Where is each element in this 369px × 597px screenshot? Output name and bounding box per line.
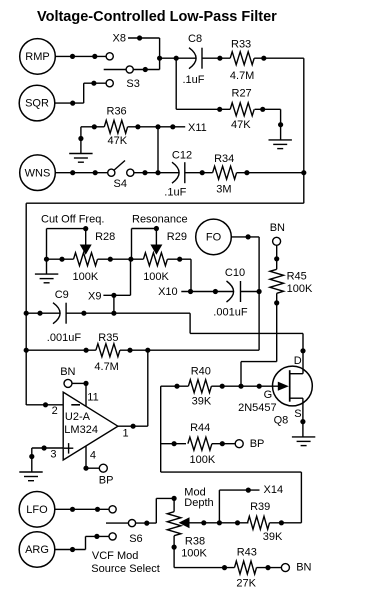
label LM324 [64, 424, 98, 436]
svg-text:Voltage-Controlled Low-Pass Fi: Voltage-Controlled Low-Pass Filter [37, 9, 277, 25]
wire pin 4 to BP [86, 467, 99, 469]
label BN (R45) [270, 222, 285, 234]
wire C12 to R34 [185, 172, 213, 174]
resistor R33 [230, 52, 254, 65]
wire R27 to ground [255, 108, 281, 110]
svg-text:47K: 47K [108, 135, 128, 147]
wire pin 2 input [26, 404, 63, 406]
wire X9 drop [113, 295, 115, 313]
wire ARG output [55, 549, 86, 551]
wire R28 to R29 [98, 258, 144, 260]
potentiometer R38 [167, 512, 181, 536]
ground (R28) [35, 274, 58, 283]
wire gate riser [240, 362, 242, 387]
transistor Q8 gate bar [289, 370, 291, 402]
wire jog down [189, 313, 191, 333]
terminal SQR [19, 85, 55, 121]
junction right of R44 [220, 441, 225, 446]
svg-text:.1uF: .1uF [183, 74, 205, 86]
svg-text:RMP: RMP [25, 51, 49, 63]
label Cut Off Freq. [41, 214, 104, 226]
svg-text:R45: R45 [287, 271, 307, 283]
junction on X11 stub [170, 124, 175, 129]
junction right of R43 [265, 565, 270, 570]
wire left bus vertical [25, 203, 27, 405]
value 100K (R44) [190, 454, 216, 466]
resistor R45 [270, 269, 284, 293]
pin label G [264, 389, 273, 401]
label Depth [184, 497, 213, 509]
wire R35 right [120, 349, 259, 351]
terminal BP (U2-A) [99, 464, 107, 472]
junction R36/S4 riser [155, 124, 160, 129]
junction R28 left [44, 257, 49, 262]
junction R45 riser / gate [238, 384, 243, 389]
node X11 label [188, 122, 207, 134]
junction on gate wire [257, 384, 262, 389]
wire R36 to X11 [128, 126, 186, 128]
label C12 [172, 149, 192, 161]
junction on RMP wire [70, 54, 75, 59]
wire to R38 top [156, 497, 174, 499]
svg-text:39K: 39K [192, 395, 212, 407]
junction on drain wire [300, 348, 305, 353]
junction on wiper wire [201, 520, 206, 525]
svg-text:3: 3 [50, 449, 56, 461]
svg-text:.1uF: .1uF [164, 187, 186, 199]
wire ground to R36 [81, 126, 104, 128]
svg-text:C8: C8 [188, 33, 202, 45]
label S3 [126, 78, 139, 90]
wire S6 riser [155, 498, 157, 523]
wire C10 right [241, 291, 260, 293]
value .1uF (C12) [164, 187, 186, 199]
wire RMP to S3 throw [55, 55, 106, 57]
junction on X14 stub [246, 488, 251, 493]
junction on ARG upper wire [94, 534, 99, 539]
terminal ARG [19, 532, 55, 568]
wire X10 stub [181, 291, 233, 293]
switch S3 throw 2 [106, 80, 113, 87]
value 47K (R36) [108, 135, 128, 147]
wire R44 to BP [212, 443, 236, 445]
svg-text:BN: BN [60, 366, 75, 378]
svg-text:R33: R33 [231, 39, 251, 51]
wire output riser to R35 row [147, 350, 149, 426]
switch S6 pole arm [106, 522, 128, 524]
svg-text:4.7M: 4.7M [94, 361, 118, 373]
junction on SQR upper wire [91, 81, 96, 86]
label C8 [188, 33, 202, 45]
junction X10 [188, 289, 193, 294]
svg-text:11: 11 [87, 391, 98, 403]
label R38 [185, 535, 205, 547]
label R36 [107, 106, 127, 118]
wire R29 wiper loop left [131, 229, 133, 260]
svg-text:27K: 27K [236, 577, 256, 589]
op-amp plus sign [64, 443, 73, 454]
terminal BN (R43) [281, 564, 289, 572]
wire SQR to S3 throw [84, 82, 106, 84]
svg-text:D: D [294, 355, 302, 367]
junction R45 bottom [274, 300, 279, 305]
capacitor C9 [53, 303, 66, 324]
pin number 1 [123, 428, 129, 440]
svg-text:BP: BP [250, 438, 265, 450]
svg-text:X11: X11 [188, 122, 207, 134]
value 100K (R38) [181, 547, 207, 559]
wire LFO to S6 throw [55, 508, 109, 510]
svg-text:4: 4 [90, 449, 96, 461]
wire FO vertical [258, 237, 260, 350]
svg-text:BN: BN [296, 561, 311, 573]
wire R34 to right bus [237, 172, 304, 174]
junction on S3 output [143, 67, 148, 72]
wire R43 right [257, 567, 282, 569]
svg-text:2: 2 [52, 405, 58, 417]
svg-text:100K: 100K [73, 271, 99, 283]
terminal RMP [20, 39, 56, 75]
ground (R27) [269, 140, 292, 149]
svg-text:R44: R44 [190, 422, 210, 434]
svg-text:X9: X9 [88, 291, 101, 303]
wire R38 wiper to R39 [190, 522, 249, 524]
wire S3 output [134, 69, 160, 71]
junction X9 [111, 293, 116, 298]
wire to R27 [176, 108, 230, 110]
pot R29 wiper arrow [150, 245, 162, 255]
junction left of R27 [217, 107, 222, 112]
wire R33 to right bus [254, 57, 304, 59]
ground (pin 3) [19, 472, 42, 481]
label 2N5457 [238, 402, 277, 414]
svg-text:R29: R29 [167, 231, 187, 243]
potentiometer R28 [74, 253, 98, 266]
svg-text:LM324: LM324 [64, 424, 98, 436]
svg-text:ARG: ARG [25, 544, 49, 556]
junction on S6 output [144, 521, 149, 526]
label R43 [237, 547, 257, 559]
wire R39 right [270, 522, 302, 524]
svg-text:U2-A: U2-A [65, 411, 91, 423]
junction left bus / R35 row [24, 348, 29, 353]
junction on output wire [131, 424, 136, 429]
value 27K (R43) [236, 577, 256, 589]
junction left of R36 [92, 124, 97, 129]
op-amp minus sign [71, 404, 80, 406]
junction pin 11 corner [83, 381, 88, 386]
junction on R36 ground drop [78, 136, 83, 141]
svg-text:S: S [294, 408, 301, 420]
wire R27 ground drop [280, 109, 282, 140]
label R45 [287, 271, 307, 283]
value 100K (R29) [143, 271, 169, 283]
junction left of R40 [174, 384, 179, 389]
wire X10 riser [190, 259, 192, 291]
switch S3 pole [126, 66, 133, 73]
value .1uF (C8) [183, 74, 205, 86]
value 39K (R40) [192, 395, 212, 407]
svg-text:VCF Mod: VCF Mod [92, 550, 138, 562]
terminal BN (U2-A) [64, 379, 72, 387]
svg-text:SQR: SQR [25, 98, 49, 110]
junction on R28 wire [59, 257, 64, 262]
svg-text:R43: R43 [237, 547, 257, 559]
transistor Q8 gate arrow [278, 382, 289, 391]
wire R28 wiper loop top [47, 228, 86, 230]
terminal LFO [19, 492, 55, 528]
svg-text:X8: X8 [113, 32, 126, 44]
switch S3 pole arm [104, 69, 126, 71]
wire drain vertical [302, 333, 304, 373]
wire drop to R27 [175, 58, 177, 109]
switch S4 arm [114, 161, 125, 171]
junction on R38 bottom lead [172, 545, 177, 550]
junction right of R35 [127, 348, 132, 353]
svg-text:.001uF: .001uF [47, 332, 82, 344]
junction on FO wire [246, 234, 251, 239]
wire R40/R44 vertical [160, 386, 162, 472]
switch S6 throw 1 [109, 506, 116, 513]
junction left of R34 [200, 170, 205, 175]
capacitor C8 [189, 48, 202, 69]
resistor R39 [248, 516, 270, 529]
label R28 [95, 231, 115, 243]
junction on R27 ground drop [278, 122, 283, 127]
pin label S [294, 408, 301, 420]
wire R45 to gate riser [241, 361, 277, 363]
wire mod bus drop [300, 472, 302, 523]
junction left bus / C9 row [24, 311, 29, 316]
svg-text:Source Select: Source Select [91, 563, 159, 575]
junction right of R39 [279, 520, 284, 525]
junction on SQR wire [70, 101, 75, 106]
wire ARG riser [85, 536, 87, 549]
svg-text:WNS: WNS [25, 167, 51, 179]
svg-text:4.7M: 4.7M [230, 70, 254, 82]
wire BN to R45 [276, 245, 278, 269]
title [37, 9, 277, 25]
node X9 label [88, 291, 101, 303]
wire jog right [190, 332, 303, 334]
wire R40 left [161, 385, 189, 387]
wire R38 bottom lead [173, 536, 175, 568]
value 47K (R27) [231, 119, 251, 131]
svg-text:Q8: Q8 [274, 414, 289, 426]
value 100K (R28) [73, 271, 99, 283]
label R33 [231, 39, 251, 51]
svg-text:Depth: Depth [184, 497, 213, 509]
label R34 [214, 153, 234, 165]
wire C8 to R33 [202, 57, 230, 59]
junction left of R44 [172, 441, 177, 446]
svg-text:BP: BP [99, 475, 114, 487]
svg-text:C9: C9 [55, 289, 69, 301]
wire S6 output [136, 522, 156, 524]
wire right bus vertical [303, 58, 305, 203]
junction R45 top [274, 256, 279, 261]
svg-text:R39: R39 [250, 501, 270, 513]
junction on X10 wire [213, 289, 218, 294]
value 3M (R34) [216, 184, 231, 196]
switch S4 throw [108, 169, 115, 176]
wire S4 output to C12 [134, 172, 179, 174]
terminal FO [196, 219, 232, 255]
wire riser to S4 row [157, 127, 159, 173]
svg-text:100K: 100K [190, 454, 216, 466]
junction R38 top [172, 496, 177, 501]
svg-text:C12: C12 [172, 149, 192, 161]
svg-text:BN: BN [270, 222, 285, 234]
resistor R44 [188, 437, 212, 450]
wire R36 ground drop [80, 127, 82, 154]
junction right of C9 [81, 311, 86, 316]
wire SQR output [55, 102, 84, 104]
wire X9 riser [130, 259, 132, 295]
label R35 [98, 332, 118, 344]
wire to C9 [26, 312, 60, 314]
junction on X8 stub [137, 35, 142, 40]
wire R28 ground stub [46, 259, 48, 274]
wire FO to vertical [231, 236, 259, 238]
op-amp U2-A body [63, 392, 118, 460]
terminal WNS [20, 155, 56, 191]
wire R45 bottom [276, 293, 278, 361]
wire pin 4 drop [85, 446, 87, 468]
wire S3 output riser [159, 38, 161, 70]
resistor R40 [188, 380, 211, 393]
pin number 11 [87, 391, 98, 403]
label R27 [232, 87, 252, 99]
svg-text:1: 1 [123, 428, 129, 440]
svg-text:X10: X10 [158, 286, 178, 298]
pot R38 wiper arrow [179, 517, 190, 528]
junction on pin 3 wire [42, 445, 47, 450]
junction X9 drop / C9 row [111, 311, 116, 316]
wire source to ground [302, 398, 304, 437]
label BP (U2-A) [99, 475, 114, 487]
svg-text:.001uF: .001uF [213, 306, 248, 318]
resistor R35 [96, 344, 120, 357]
svg-text:R28: R28 [95, 231, 115, 243]
svg-text:S6: S6 [129, 533, 142, 545]
junction R35 row / output riser [145, 348, 150, 353]
junction on LFO wire [70, 507, 75, 512]
svg-text:39K: 39K [263, 531, 283, 543]
label VCF Mod [92, 550, 138, 562]
label BN (R43) [296, 561, 311, 573]
label BN (U2-A) [60, 366, 75, 378]
capacitor C12 [172, 162, 185, 183]
wire X8 stub [128, 37, 160, 39]
pin number 2 [52, 405, 58, 417]
wire R29 wiper drop [155, 229, 157, 246]
capacitor C10 [227, 281, 241, 302]
pin number 4 [90, 449, 96, 461]
wire ARG to S6 throw [86, 535, 109, 537]
label R40 [191, 366, 211, 378]
junction right of R34 [244, 170, 249, 175]
junction right of C8 [217, 56, 222, 61]
svg-text:G: G [264, 389, 273, 401]
svg-text:100K: 100K [287, 283, 313, 295]
junction on WNS wire [70, 170, 75, 175]
junction right of R27 [260, 107, 265, 112]
junction X14 riser / wiper [217, 520, 222, 525]
terminal BN (R45) [273, 237, 281, 245]
junction R29 right [177, 257, 182, 262]
svg-text:FO: FO [206, 232, 222, 244]
label Resonance [132, 214, 188, 226]
junction right of R36 [135, 124, 140, 129]
junction pin 4 [83, 466, 88, 471]
svg-text:R35: R35 [98, 332, 118, 344]
node X14 label [264, 484, 284, 496]
junction R34/right bus [301, 170, 306, 175]
svg-text:X14: X14 [264, 484, 284, 496]
wire R38 top lead [173, 498, 175, 511]
resistor R27 [230, 103, 254, 116]
junction right of R33 [261, 56, 266, 61]
switch S3 throw 1 [106, 53, 113, 60]
pin number 3 [50, 449, 56, 461]
wire to R35 [26, 349, 96, 351]
value 39K (R39) [263, 531, 283, 543]
pin label D [294, 355, 302, 367]
label U2-A [65, 411, 91, 423]
junction left of R39 [235, 520, 240, 525]
node X8 label [113, 32, 126, 44]
junction R28 wiper [83, 226, 88, 231]
value .001uF (C10) [213, 306, 248, 318]
label C10 [225, 267, 245, 279]
svg-text:R27: R27 [232, 87, 252, 99]
wire output pin 1 [118, 425, 148, 427]
value 4.7M (R33) [230, 70, 254, 82]
svg-text:R36: R36 [107, 106, 127, 118]
junction C10/FO vertical [257, 289, 262, 294]
junction on RMP wire [92, 54, 97, 59]
svg-text:R34: R34 [214, 153, 234, 165]
junction on pin 2 wire [43, 402, 48, 407]
resistor R34 [213, 166, 237, 179]
wire R28 wiper drop [85, 229, 87, 245]
wire mod bus horizontal [161, 471, 302, 473]
junction R29 wiper [154, 226, 159, 231]
wire R38 bottom to R43 [174, 567, 234, 569]
junction on pin 3 ground drop [29, 454, 34, 459]
wire WNS to S4 [55, 172, 107, 174]
junction left of C8 [174, 56, 179, 61]
wire R29 wiper loop top [132, 228, 157, 230]
wire SQR riser [83, 83, 85, 103]
wire pin 11 drop [85, 383, 87, 406]
switch S6 throw 2 [109, 533, 116, 540]
terminal BP (R44) [235, 440, 243, 448]
ground (Q8 source) [292, 437, 315, 446]
wire X14 riser [218, 490, 220, 523]
value 4.7M (R35) [94, 361, 118, 373]
svg-text:100K: 100K [143, 271, 169, 283]
junction R28 right [108, 257, 113, 262]
transistor Q8 drain lead [290, 373, 303, 375]
svg-text:Resonance: Resonance [132, 214, 188, 226]
wire R29 right [167, 258, 191, 260]
wire X9 stub [103, 294, 130, 296]
wire to R28 [47, 258, 74, 260]
node X10 label [158, 286, 178, 298]
label Q8 [274, 414, 289, 426]
